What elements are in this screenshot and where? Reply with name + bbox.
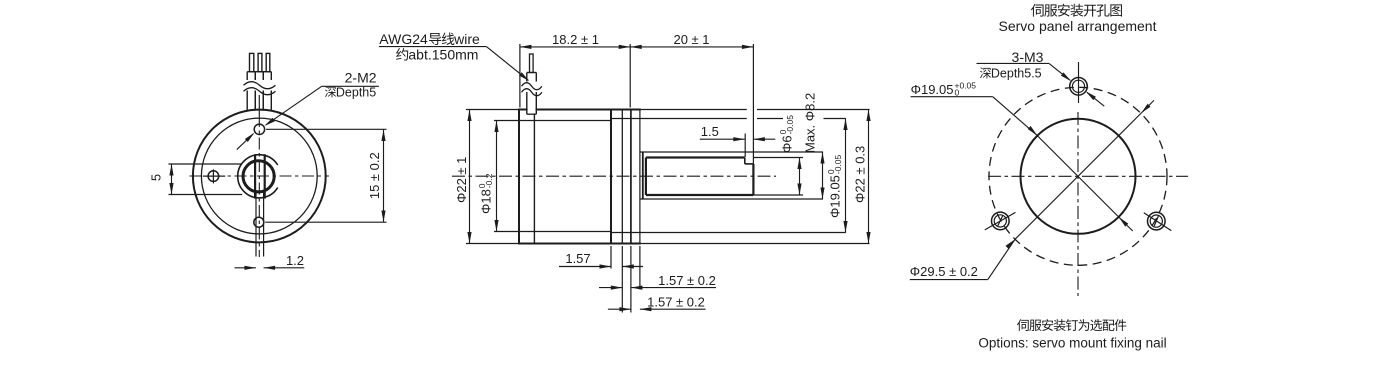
Phi22 extension line right bottom xyxy=(641,243,870,245)
dim 1.5 extension line xyxy=(744,134,746,158)
Phi22 extension line right top xyxy=(641,109,870,111)
dim Phi19.05 panel tail xyxy=(1119,217,1133,231)
svg-text:5: 5 xyxy=(149,174,164,181)
panel hole circle Phi19.05 xyxy=(1021,119,1136,234)
middle wire break symbol xyxy=(522,82,543,96)
dim 20 dimension line xyxy=(630,45,753,49)
caption EN options xyxy=(978,336,1166,351)
right view horizontal center line xyxy=(988,175,1188,177)
dim 18.2 dimension line xyxy=(520,45,630,49)
Max Phi8.2 line top xyxy=(641,151,824,153)
svg-text:0: 0 xyxy=(955,88,960,98)
output shaft outline (bold) xyxy=(646,158,754,196)
diagonal center line B (135deg) xyxy=(1037,136,1118,217)
dim 18.2/20 extension line middle xyxy=(629,44,631,108)
dim Phi19.05 dimension line xyxy=(843,119,847,233)
dim 15 text xyxy=(367,152,382,199)
svg-text:1.57: 1.57 xyxy=(565,251,590,266)
svg-text:Depth5: Depth5 xyxy=(336,85,376,99)
label underline 2-M2 xyxy=(322,85,379,87)
dim 1.57b text xyxy=(647,295,705,310)
slot extension lines down to 1.2 dim xyxy=(256,192,264,256)
svg-text:2-M2: 2-M2 xyxy=(345,70,377,86)
svg-text:Options: servo mount fixing na: Options: servo mount fixing nail xyxy=(978,336,1166,351)
dim Max Phi8.2 dimension line xyxy=(820,152,824,199)
label Depth5.5 xyxy=(980,67,1042,81)
svg-text:15 ± 0.2: 15 ± 0.2 xyxy=(367,152,382,199)
M3 hole lower left slash xyxy=(985,212,1016,230)
dim Phi29.5 text xyxy=(910,264,978,279)
svg-text:Φ29.5 ± 0.2: Φ29.5 ± 0.2 xyxy=(910,264,978,279)
dim 1.2 text xyxy=(286,253,304,268)
dim 5 extension lines xyxy=(169,164,243,195)
dim Phi22 1 label xyxy=(454,157,469,203)
label Depth5 xyxy=(325,85,376,99)
dim 1.57b line xyxy=(608,307,706,311)
svg-text:3-M3: 3-M3 xyxy=(1012,49,1044,65)
svg-text:-0.05: -0.05 xyxy=(833,154,843,174)
svg-text:Φ19.05: Φ19.05 xyxy=(911,82,954,97)
left view horizontal center line xyxy=(190,175,330,177)
servo plate 1 right edge xyxy=(630,110,632,244)
dim 5 dimension line xyxy=(169,164,173,195)
dim Phi22 1 dimension line xyxy=(467,110,471,244)
body inner lines xyxy=(494,121,611,232)
left pin hole center cross xyxy=(203,169,225,183)
svg-text:Depth5.5: Depth5.5 xyxy=(991,67,1042,81)
right view title EN xyxy=(999,18,1157,34)
svg-text:20 ± 1: 20 ± 1 xyxy=(673,32,709,47)
dim Phi18 dimension line xyxy=(494,121,498,232)
dim Phi19.05 panel text xyxy=(911,81,977,98)
AWG label underline and leader xyxy=(379,47,529,82)
bottom M2 mounting hole xyxy=(254,217,264,227)
dim Phi22 1 extension lines xyxy=(466,110,520,244)
dim Max Phi8.2 label xyxy=(803,93,818,153)
bottom dim extension lines xyxy=(611,246,640,313)
M3 hole lower right slash xyxy=(1144,213,1172,231)
3-M3 opposed arrow xyxy=(1086,91,1105,106)
dim Phi29.5 arrow tails xyxy=(1141,100,1154,113)
svg-text:AWG24: AWG24 xyxy=(379,31,428,47)
label abt 150mm xyxy=(396,47,478,63)
dim Phi29.5 leader xyxy=(910,239,1015,279)
dim 15 extension lines xyxy=(265,129,386,222)
dim Phi19.05 panel leader xyxy=(993,97,1038,136)
svg-text:Φ18: Φ18 xyxy=(479,189,494,214)
dim 1.5 text xyxy=(701,124,719,139)
motor body outline xyxy=(519,110,611,244)
Phi19.05 line top xyxy=(611,118,846,120)
dim 20 extension line right xyxy=(752,44,754,164)
dim 1.57a line xyxy=(599,286,716,290)
diagonal center line A (45deg) xyxy=(1015,113,1141,239)
svg-text:Φ6: Φ6 xyxy=(780,135,795,153)
retaining C-ring (open right) xyxy=(238,155,278,198)
dim 20 text xyxy=(673,32,709,47)
svg-text:1.5: 1.5 xyxy=(701,124,719,139)
dim Phi19.05 panel arrows xyxy=(1028,126,1129,227)
left pin hole xyxy=(208,171,219,182)
svg-text:18.2 ± 1: 18.2 ± 1 xyxy=(552,32,599,47)
3-M3 underline and leader xyxy=(977,63,1072,81)
dim 1.2 lines xyxy=(235,266,305,270)
right view title CJK xyxy=(1031,4,1122,17)
label AWG24 wire xyxy=(379,31,480,47)
2-M2 opposed arrow xyxy=(237,133,255,150)
middle view horizontal center line xyxy=(452,175,776,177)
svg-text:1.57 ± 0.2: 1.57 ± 0.2 xyxy=(658,273,716,288)
dim Phi6 label xyxy=(778,115,795,153)
label 2-M2 xyxy=(345,70,377,86)
dim 1.57a text xyxy=(658,273,716,288)
Max Phi8.2 line bottom xyxy=(641,198,824,200)
body cap line xyxy=(533,110,535,244)
wire entry notch xyxy=(528,108,536,113)
dim Phi19.05 panel underline xyxy=(911,96,993,98)
dim 1.57 line xyxy=(559,264,643,268)
dim Phi6 extension lines xyxy=(753,158,803,196)
lead wires with connector pins (3x) xyxy=(247,53,271,110)
svg-text:abt.150mm: abt.150mm xyxy=(408,47,478,63)
bolt circle Phi29.5 (dashed) xyxy=(989,87,1167,265)
dim 5 text xyxy=(149,174,164,181)
M3 hole lower right xyxy=(1148,212,1166,230)
label 3-M3 xyxy=(1012,49,1044,65)
svg-text:Max. Φ8.2: Max. Φ8.2 xyxy=(803,93,818,153)
wire break symbol (wavy lines) xyxy=(244,80,276,95)
M3 hole top xyxy=(1070,78,1088,96)
dim 1.57 text xyxy=(565,251,590,266)
right view vertical center line xyxy=(1077,62,1080,296)
svg-text:wire: wire xyxy=(453,31,480,47)
left view outer circle (slip ring body Phi22) xyxy=(193,110,326,243)
shaft bore bold circle xyxy=(243,161,274,192)
dim 18.2 text xyxy=(552,32,599,47)
svg-text:1.2: 1.2 xyxy=(286,253,304,268)
dim Phi18 label xyxy=(477,173,494,214)
dim Phi6 dimension line xyxy=(797,158,801,196)
dim Phi19.05 label xyxy=(826,154,843,218)
2-M2 leader arrow xyxy=(264,86,321,126)
dim Phi22 0.3 dimension line xyxy=(866,110,870,244)
servo plate 1 left edge xyxy=(621,110,623,244)
left view vertical center line xyxy=(258,95,260,257)
dim 18.2 extension line left xyxy=(519,44,521,108)
top outline continues over plates xyxy=(611,110,641,244)
svg-text:Φ22 ± 1: Φ22 ± 1 xyxy=(454,157,469,203)
dim 15 dimension line xyxy=(381,130,385,223)
dim 1.5 lines xyxy=(700,137,776,141)
svg-text:1.57 ± 0.2: 1.57 ± 0.2 xyxy=(647,295,705,310)
svg-text:-0.2: -0.2 xyxy=(484,173,494,188)
svg-text:Φ22 ± 0.3: Φ22 ± 0.3 xyxy=(853,146,868,203)
svg-text:Servo panel arrangement: Servo panel arrangement xyxy=(999,18,1157,34)
svg-text:Φ19.05: Φ19.05 xyxy=(828,175,843,218)
left view inner rim circle xyxy=(201,118,317,234)
M3 hole lower left xyxy=(992,212,1010,230)
dim Phi29.5 arrows xyxy=(1006,104,1151,249)
dim Phi22 0.3 label xyxy=(853,146,868,203)
shaft collar edge xyxy=(642,152,644,199)
middle view lead wire xyxy=(527,54,537,114)
svg-text:-0.05: -0.05 xyxy=(785,115,795,135)
servo plate 2 right edge xyxy=(639,110,641,244)
shaft slot lines (bold) xyxy=(255,154,265,198)
top M2 mounting hole xyxy=(254,124,264,134)
Phi19.05 line bottom xyxy=(611,232,846,234)
caption CJK options xyxy=(1017,319,1126,331)
